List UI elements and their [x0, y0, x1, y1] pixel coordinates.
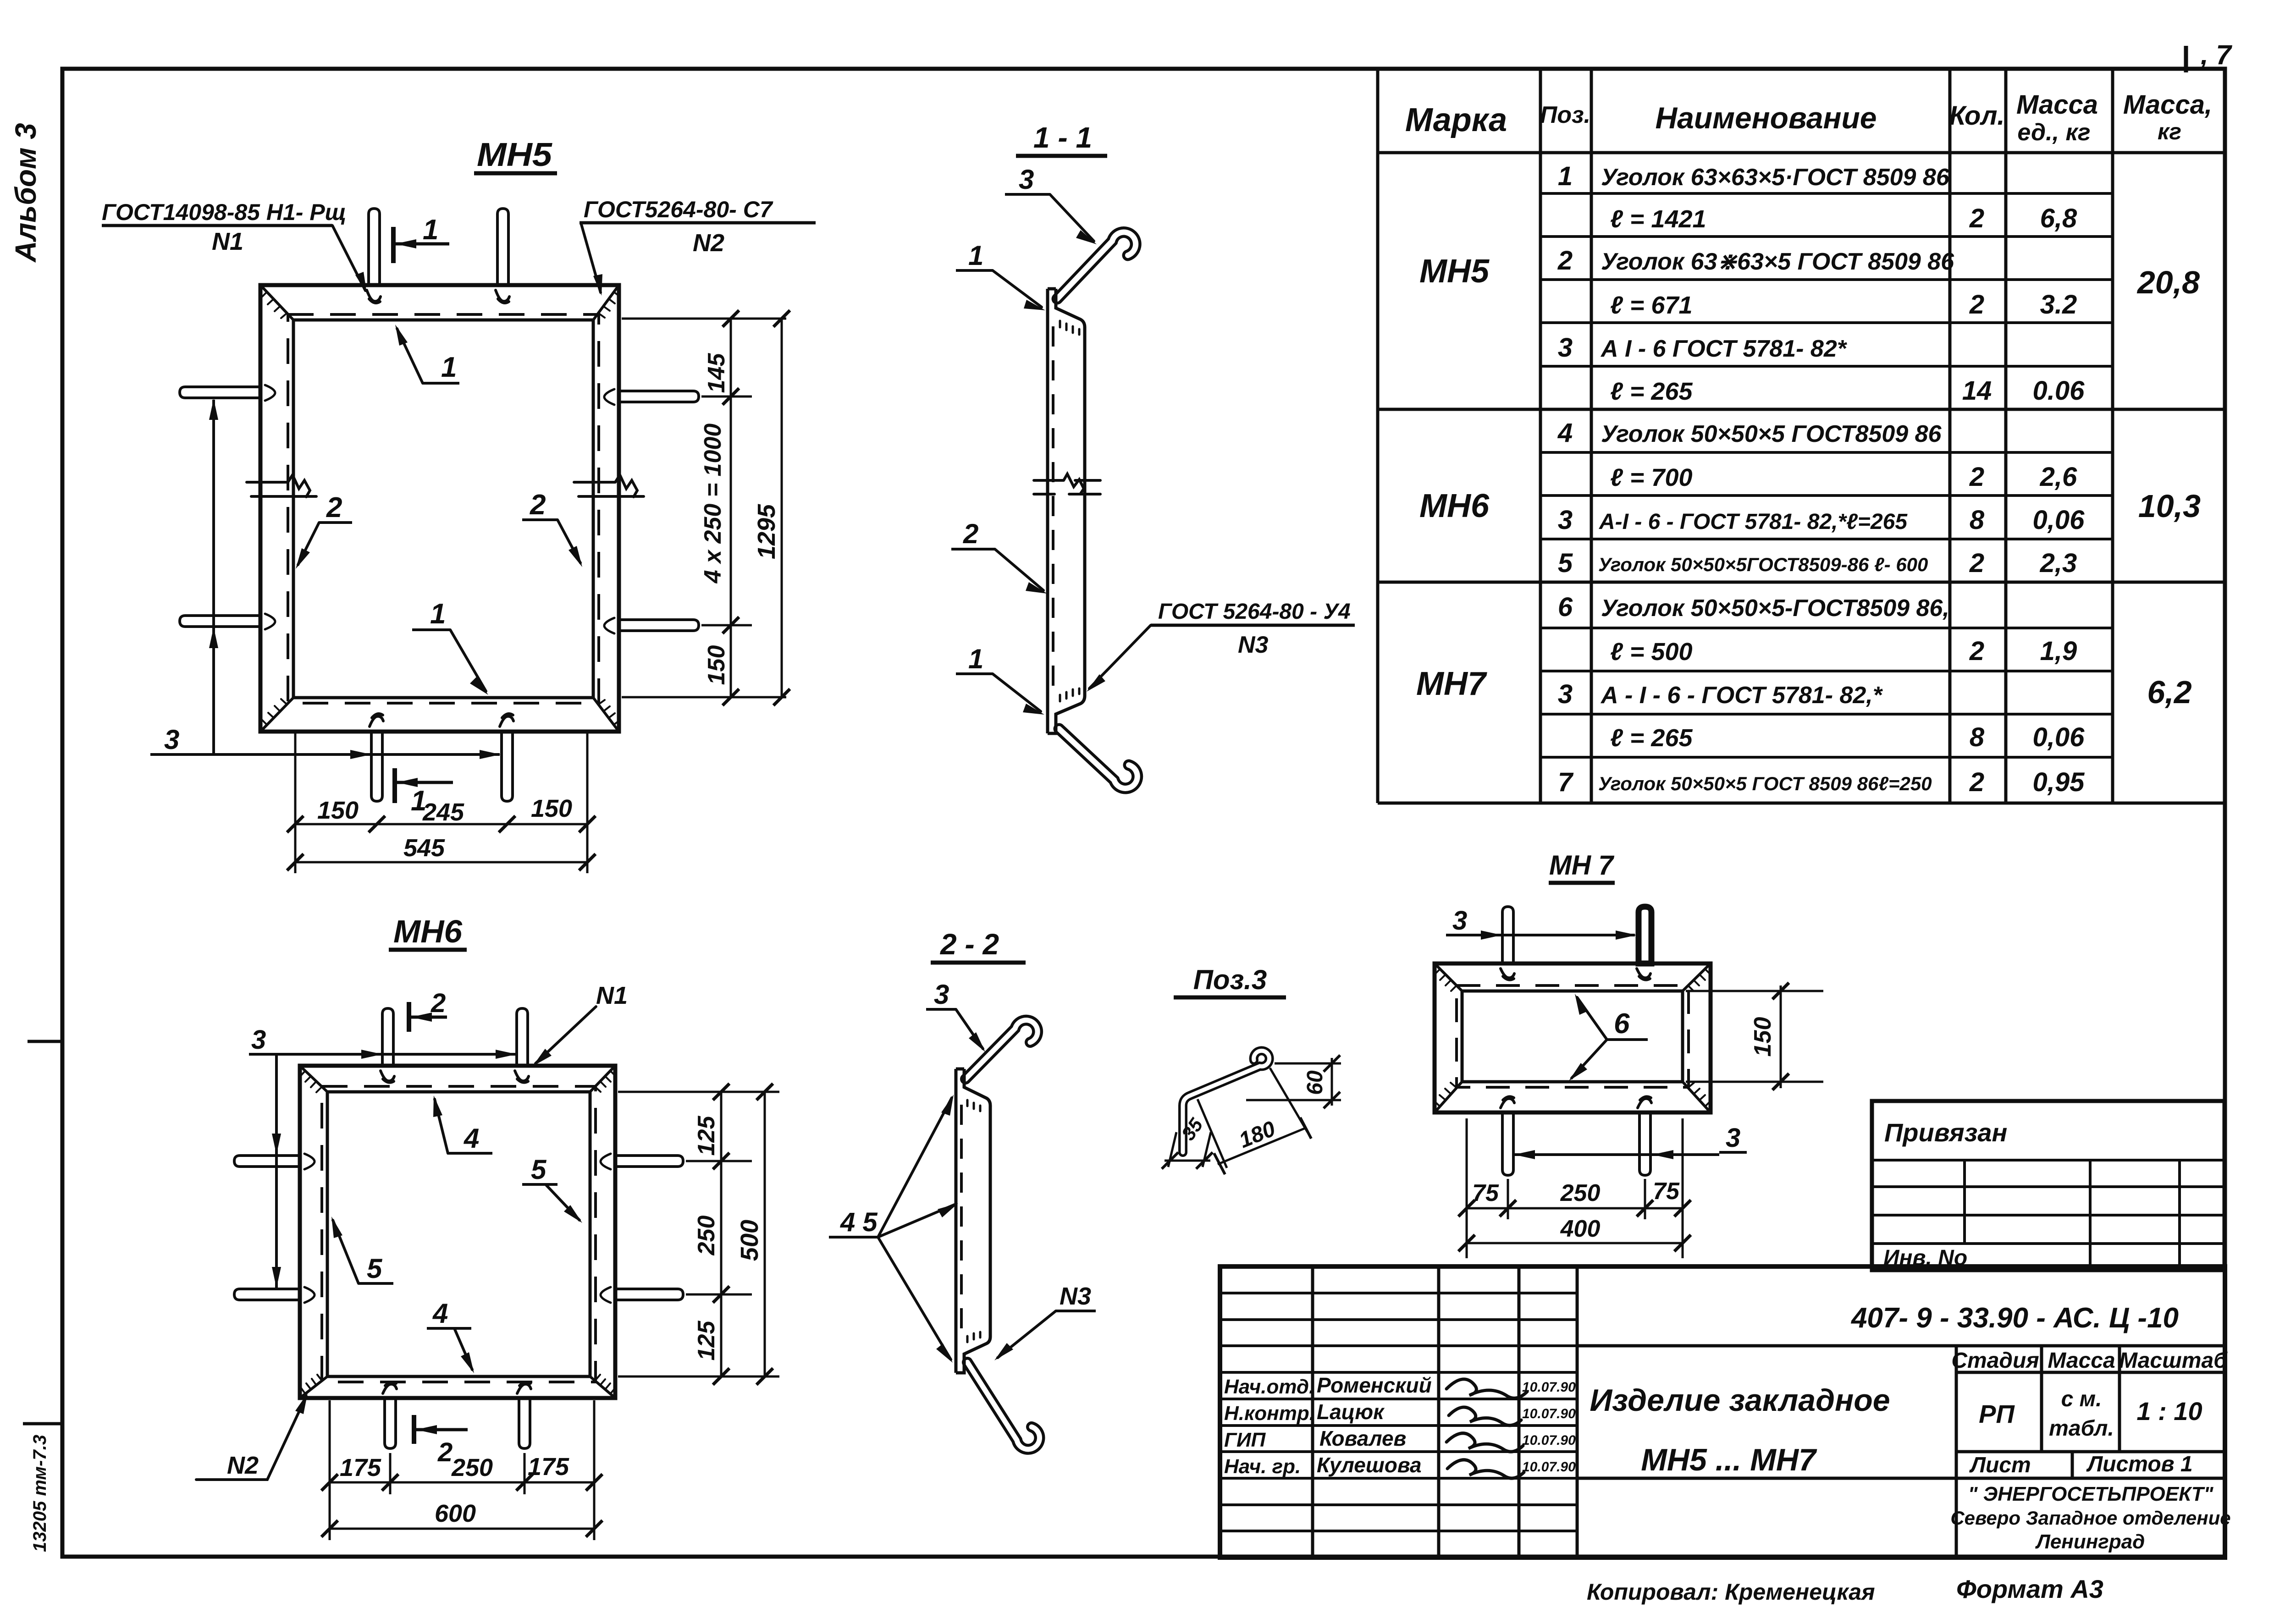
svg-text:РП: РП: [1979, 1399, 2015, 1428]
stud top left: [382, 1008, 393, 1066]
svg-text:407- 9 - 33.90 - АС. Ц -10: 407- 9 - 33.90 - АС. Ц -10: [1850, 1302, 2179, 1334]
svg-text:Уголок 50×50×5 ГОСТ8509 86: Уголок 50×50×5 ГОСТ8509 86: [1601, 421, 1942, 447]
svg-text:кг: кг: [2158, 119, 2181, 144]
channel body: [1048, 289, 1085, 733]
dim line 1295: [781, 319, 783, 697]
svg-text:125: 125: [693, 1321, 720, 1361]
section mark 1 bottom: [392, 768, 397, 803]
stud top right: [497, 209, 508, 285]
svg-text:0,06: 0,06: [2033, 505, 2085, 535]
svg-text:75: 75: [1653, 1178, 1680, 1205]
svg-text:545: 545: [403, 834, 445, 862]
svg-text:" ЭНЕРГОСЕТЬПРОЕКТ": " ЭНЕРГОСЕТЬПРОЕКТ": [1968, 1483, 2214, 1505]
svg-text:Ленинград: Ленинград: [2035, 1530, 2145, 1553]
bottom anchor hook: [967, 1362, 1039, 1449]
stud bottom right: [519, 1398, 530, 1448]
svg-text:150: 150: [703, 645, 730, 685]
svg-text:5: 5: [531, 1154, 547, 1185]
svg-text:Лист: Лист: [1969, 1453, 2031, 1477]
svg-text:Уголок 63×63×5·ГОСТ 8509 86: Уголок 63×63×5·ГОСТ 8509 86: [1601, 164, 1950, 191]
dim 35: [1168, 1132, 1211, 1167]
stud bottom left: [385, 1398, 396, 1448]
svg-text:3: 3: [1558, 333, 1573, 363]
svg-text:175: 175: [340, 1454, 381, 1481]
frame outer rect: [260, 285, 619, 732]
svg-text:2: 2: [530, 489, 546, 521]
weld dashed line: [1457, 985, 1689, 1087]
section mark 2 top: [407, 1002, 411, 1032]
svg-text:1: 1: [441, 352, 457, 383]
svg-text:ℓ = 500: ℓ = 500: [1610, 638, 1693, 666]
signature squiggles: [1446, 1379, 1527, 1398]
stud bottom left: [1502, 1112, 1513, 1175]
svg-text:2 - 2: 2 - 2: [940, 928, 999, 961]
weld marks side studs: [304, 1154, 315, 1169]
svg-text:ГОСТ14098-85 Н1- Рщ: ГОСТ14098-85 Н1- Рщ: [102, 199, 346, 225]
svg-text:N3: N3: [1060, 1283, 1091, 1310]
dim line 150/245/150: [295, 823, 587, 826]
svg-text:20,8: 20,8: [2136, 264, 2200, 300]
svg-text:МН5 ... МН7: МН5 ... МН7: [1641, 1442, 1817, 1477]
svg-text:150: 150: [317, 797, 359, 824]
stud top right: [517, 1008, 528, 1066]
weld ticks bottom: [1060, 688, 1079, 701]
svg-text:МН7: МН7: [1416, 666, 1487, 702]
dim line 545: [295, 861, 587, 864]
svg-text:Lацюк: Lацюк: [1317, 1400, 1385, 1424]
svg-text:2: 2: [431, 988, 446, 1018]
stud right lower: [619, 620, 699, 631]
svg-text:3: 3: [1452, 906, 1467, 936]
weld curls under top studs: [367, 290, 381, 303]
bent anchor rod: [1183, 1051, 1269, 1152]
svg-text:14: 14: [1962, 376, 1992, 406]
svg-text:150: 150: [1750, 1017, 1776, 1057]
dim line 500: [764, 1092, 766, 1376]
svg-text:150: 150: [531, 795, 572, 822]
right dim extension lines: [622, 319, 786, 697]
dim line 125/250/125: [720, 1092, 723, 1376]
svg-text:Листов 1: Листов 1: [2086, 1452, 2192, 1476]
svg-text:1: 1: [968, 644, 983, 674]
svg-text:4: 4: [464, 1123, 479, 1154]
svg-text:250: 250: [451, 1454, 493, 1481]
svg-text:Наименование: Наименование: [1656, 101, 1877, 135]
svg-text:3.2: 3.2: [2040, 290, 2077, 319]
right part grid: [1577, 1346, 2225, 1478]
svg-text:2: 2: [437, 1437, 453, 1467]
svg-text:2,3: 2,3: [2040, 548, 2077, 578]
svg-text:175: 175: [528, 1453, 569, 1481]
section mark 1 top: [391, 227, 396, 263]
svg-text:Копировал: Кременецкая: Копировал: Кременецкая: [1587, 1579, 1875, 1605]
svg-text:Изделие закладное: Изделие закладное: [1590, 1383, 1890, 1418]
svg-text:13205 тм-7.3: 13205 тм-7.3: [30, 1435, 50, 1552]
top anchor hook: [966, 1020, 1038, 1079]
weld curls at studs: [1501, 969, 1514, 980]
leader to top right corner: [581, 223, 601, 292]
section mark 2 bottom: [412, 1415, 416, 1444]
svg-text:ГОСТ 5264-80 - У4: ГОСТ 5264-80 - У4: [1158, 600, 1351, 624]
svg-text:10.07.90: 10.07.90: [1522, 1380, 1576, 1395]
svg-text:10,3: 10,3: [2138, 488, 2201, 524]
svg-text:2: 2: [326, 492, 342, 523]
weld ticks: [967, 1100, 980, 1342]
bottom dim extension lines: [330, 1400, 594, 1540]
svg-text:Масса,: Масса,: [2123, 90, 2212, 120]
svg-text:ℓ = 1421: ℓ = 1421: [1610, 205, 1706, 233]
svg-text:3: 3: [1558, 505, 1573, 535]
svg-text:Масштаб: Масштаб: [2119, 1349, 2228, 1373]
svg-text:3: 3: [1558, 679, 1573, 709]
stud left lower: [234, 1289, 300, 1300]
svg-text:1: 1: [1558, 161, 1573, 191]
svg-text:8: 8: [1970, 722, 1985, 752]
svg-text:Формат А3: Формат А3: [1956, 1574, 2103, 1603]
svg-text:1,9: 1,9: [2040, 636, 2077, 666]
svg-text:Кол.: Кол.: [1949, 101, 2004, 131]
svg-text:Кулешова: Кулешова: [1317, 1453, 1422, 1477]
left grid horizontals: [1220, 1293, 1577, 1531]
svg-text:Уголок 50×50×5ГОСТ8509-86 ℓ- 6: Уголок 50×50×5ГОСТ8509-86 ℓ- 600: [1598, 554, 1928, 575]
weld marks at side studs: [265, 385, 275, 401]
stud top left: [369, 209, 380, 285]
svg-text:6: 6: [1614, 1008, 1630, 1040]
svg-text:10.07.90: 10.07.90: [1522, 1406, 1576, 1421]
frame outer rect: [1435, 963, 1711, 1112]
svg-text:10.07.90: 10.07.90: [1522, 1459, 1576, 1475]
svg-text:ℓ = 265: ℓ = 265: [1610, 724, 1693, 752]
sheet mark top right: [2186, 39, 2232, 72]
mitre corner joints: [300, 1066, 615, 1398]
svg-text:Уголок 63⋇63×5 ГОСТ 8509 86: Уголок 63⋇63×5 ГОСТ 8509 86: [1601, 248, 1954, 275]
stud right lower: [615, 1289, 683, 1300]
svg-text:Привязан: Привязан: [1884, 1118, 2007, 1147]
dim line 145 / 4x250=1000 / 150: [730, 319, 732, 697]
svg-text:1: 1: [968, 240, 983, 271]
svg-text:N3: N3: [1238, 632, 1269, 658]
svg-text:4 5: 4 5: [840, 1207, 878, 1237]
svg-text:4: 4: [1557, 418, 1573, 448]
svg-text:10.07.90: 10.07.90: [1522, 1433, 1576, 1448]
weld dashed line: [288, 314, 599, 703]
svg-text:Марка: Марка: [1405, 102, 1507, 138]
svg-text:МН5: МН5: [1419, 253, 1490, 290]
svg-text:Н.контр.: Н.контр.: [1224, 1402, 1315, 1425]
svg-text:Альбом 3: Альбом 3: [9, 123, 42, 263]
weld curls above bottom studs: [370, 714, 383, 727]
svg-text:245: 245: [422, 798, 464, 826]
svg-text:400: 400: [1560, 1216, 1601, 1242]
svg-text:1295: 1295: [753, 504, 780, 559]
weld dashed line: [322, 1086, 596, 1382]
left stud pointer line: [275, 1054, 278, 1289]
svg-text:ℓ = 671: ℓ = 671: [1610, 292, 1693, 319]
weld curls under top studs: [381, 1071, 394, 1083]
svg-text:1: 1: [423, 214, 438, 246]
svg-text:2: 2: [1969, 462, 1984, 492]
svg-text:N2: N2: [693, 229, 724, 257]
svg-text:0,06: 0,06: [2033, 722, 2085, 752]
svg-text:3: 3: [1019, 164, 1034, 195]
frame inner rect: [293, 320, 593, 698]
stud bottom right: [502, 732, 513, 801]
bottom dims: [1467, 1118, 1683, 1258]
svg-text:125: 125: [693, 1116, 720, 1156]
stud left upper: [234, 1156, 300, 1167]
svg-text:3: 3: [164, 724, 179, 755]
svg-text:ед., кг: ед., кг: [2017, 119, 2090, 146]
svg-text:8: 8: [1970, 505, 1985, 535]
svg-text:4 х 250 = 1000: 4 х 250 = 1000: [700, 424, 726, 584]
break mark: [1034, 474, 1100, 494]
svg-text:, 7: , 7: [2200, 39, 2232, 70]
frame inner rect: [327, 1092, 590, 1376]
right dim 150: [1686, 991, 1823, 1082]
svg-text:МН6: МН6: [1419, 488, 1490, 524]
svg-text:600: 600: [435, 1500, 476, 1527]
stud top left: [1502, 907, 1513, 963]
dim line 600: [330, 1528, 594, 1530]
stud top right: [1639, 907, 1651, 963]
stud right upper: [615, 1156, 683, 1167]
mitre corner joints: [260, 285, 619, 732]
svg-text:2: 2: [1969, 636, 1984, 666]
svg-text:Стадия: Стадия: [1951, 1349, 2039, 1373]
table grid: [1378, 70, 2225, 803]
svg-text:3: 3: [934, 979, 949, 1010]
svg-text:Поз.: Поз.: [1540, 102, 1590, 128]
svg-text:5: 5: [1558, 548, 1573, 578]
channel body: [956, 1069, 990, 1373]
break mark left wall: [247, 475, 316, 497]
svg-text:2: 2: [1969, 204, 1984, 233]
svg-text:2: 2: [1969, 548, 1984, 578]
svg-text:5: 5: [367, 1253, 383, 1284]
leader to top stud weld: [332, 226, 365, 291]
dim 180: [1198, 1068, 1308, 1168]
right dim extension lines: [618, 1092, 779, 1376]
svg-text:с м.: с м.: [2061, 1387, 2102, 1411]
fold mark left middle: [28, 1040, 62, 1043]
svg-text:ГИП: ГИП: [1224, 1429, 1266, 1451]
svg-text:табл.: табл.: [2049, 1416, 2114, 1441]
svg-text:Северо Западное отделение: Северо Западное отделение: [1950, 1507, 2230, 1529]
svg-text:250: 250: [1560, 1180, 1601, 1206]
svg-text:2: 2: [1969, 290, 1984, 319]
stud left lower: [180, 616, 260, 627]
svg-text:7: 7: [1558, 767, 1574, 797]
svg-text:60: 60: [1303, 1070, 1327, 1095]
svg-text:6,2: 6,2: [2147, 674, 2191, 710]
left stud pointer line: [212, 400, 215, 754]
svg-text:А-I - 6 - ГОСТ 5781- 82,*ℓ=265: А-I - 6 - ГОСТ 5781- 82,*ℓ=265: [1599, 510, 1908, 534]
svg-text:2: 2: [1969, 767, 1984, 797]
svg-text:75: 75: [1472, 1180, 1499, 1206]
left grid verticals: [1313, 1266, 1577, 1558]
svg-text:N1: N1: [596, 982, 628, 1009]
stud bottom left: [371, 732, 382, 801]
dim line 175/250/175: [330, 1481, 594, 1484]
svg-text:Уголок 50×50×5 ГОСТ 8509 86ℓ=2: Уголок 50×50×5 ГОСТ 8509 86ℓ=250: [1598, 773, 1932, 794]
svg-text:6,8: 6,8: [2040, 204, 2077, 233]
svg-text:Масса: Масса: [2016, 90, 2098, 120]
stud right upper: [619, 391, 699, 402]
mitre corner joints: [1435, 963, 1711, 1112]
svg-text:Масса: Масса: [2048, 1349, 2115, 1373]
stud left upper: [180, 387, 260, 398]
frame outer rect: [300, 1066, 615, 1398]
hidden dashed line: [1052, 326, 1054, 693]
svg-text:МН5: МН5: [477, 137, 552, 173]
svg-text:1: 1: [430, 598, 446, 630]
svg-text:Роменский: Роменский: [1317, 1373, 1432, 1397]
svg-text:500: 500: [736, 1220, 763, 1261]
svg-text:0.06: 0.06: [2033, 376, 2085, 406]
svg-text:1 : 10: 1 : 10: [2136, 1397, 2202, 1426]
svg-text:ℓ = 265: ℓ = 265: [1610, 378, 1693, 405]
svg-text:6: 6: [1558, 592, 1573, 622]
weld ticks top: [1060, 321, 1079, 335]
hidden dashed line: [960, 1105, 963, 1335]
svg-text:1 - 1: 1 - 1: [1033, 121, 1092, 154]
svg-text:3: 3: [251, 1025, 266, 1055]
frame inner rect: [1462, 991, 1683, 1082]
svg-text:Уголок 50×50×5-ГОСТ8509 86,: Уголок 50×50×5-ГОСТ8509 86,: [1601, 595, 1949, 622]
svg-text:2: 2: [963, 518, 978, 549]
svg-text:2: 2: [1557, 246, 1573, 275]
bottom dim extension lines: [295, 733, 587, 873]
svg-text:Поз.3: Поз.3: [1193, 964, 1267, 995]
svg-text:Ковалев: Ковалев: [1319, 1426, 1406, 1450]
svg-text:Нач. гр.: Нач. гр.: [1224, 1455, 1301, 1478]
fold mark left bottom: [23, 1422, 62, 1426]
svg-text:Нач.отд.: Нач.отд.: [1224, 1376, 1314, 1398]
weld curls above bottom studs: [383, 1382, 397, 1393]
svg-text:145: 145: [703, 353, 730, 393]
svg-text:МН6: МН6: [393, 914, 463, 949]
svg-text:2,6: 2,6: [2040, 462, 2077, 492]
dim 60: [1246, 1063, 1341, 1100]
svg-text:N2: N2: [227, 1452, 259, 1479]
svg-text:А - I - 6 - ГОСТ 5781- 82,*: А - I - 6 - ГОСТ 5781- 82,*: [1600, 682, 1883, 709]
svg-text:0,95: 0,95: [2033, 767, 2085, 797]
stud bottom right: [1639, 1112, 1650, 1175]
svg-text:3: 3: [1726, 1123, 1740, 1153]
svg-text:N1: N1: [212, 228, 243, 255]
svg-text:ℓ = 700: ℓ = 700: [1610, 464, 1693, 491]
break mark right wall: [574, 475, 644, 497]
svg-text:А I - 6 ГОСТ 5781- 82*: А I - 6 ГОСТ 5781- 82*: [1600, 336, 1848, 362]
svg-text:МН 7: МН 7: [1549, 850, 1615, 881]
svg-text:250: 250: [693, 1216, 720, 1256]
svg-text:ГОСТ5264-80- С7: ГОСТ5264-80- С7: [584, 197, 773, 222]
top anchor hook: [1057, 232, 1136, 299]
bottom anchor hook: [1059, 729, 1137, 788]
svg-text:4: 4: [432, 1298, 448, 1329]
